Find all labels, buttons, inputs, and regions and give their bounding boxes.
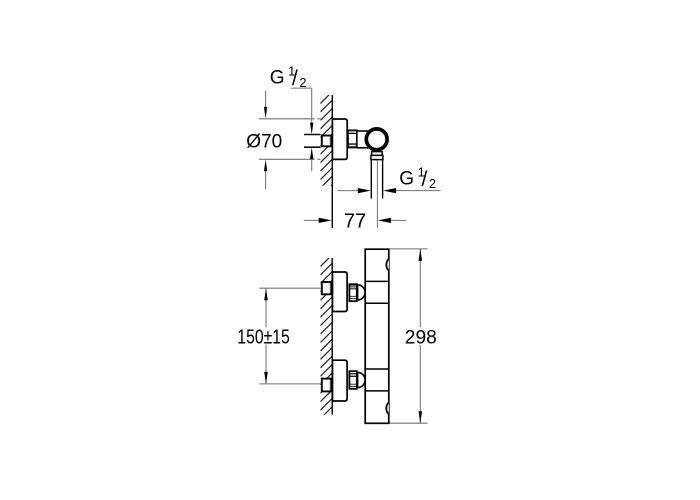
lower inlet boss silhouette lines	[365, 368, 389, 370]
upper union boss	[358, 285, 366, 300]
svg-text:G: G	[399, 169, 414, 190]
dimension ext lines: wall socket edges (G 1/2 thread)	[304, 135, 321, 148]
wall socket (concealed G 1/2 union)	[322, 136, 331, 147]
dimension: G 1/2 top leader (shelf + arrows at x=311.7)	[291, 88, 312, 171]
upper escutcheon	[333, 272, 348, 312]
wall hatching (side view)	[320, 255, 332, 428]
valve inlet horn	[357, 132, 371, 147]
hex nut (top view)	[348, 130, 357, 147]
lower wall socket	[322, 379, 331, 392]
mixer bar body	[365, 249, 389, 423]
lower union nut	[349, 371, 356, 389]
svg-text:77: 77	[344, 211, 366, 233]
dimension ext line: escutcheon bottom edge	[259, 158, 321, 160]
svg-text:/: /	[292, 67, 298, 90]
upper screw plug arc	[386, 259, 388, 271]
dimension ext line: bar top edge	[390, 248, 428, 250]
svg-text:2: 2	[300, 76, 307, 90]
upper union nut	[349, 284, 356, 301]
lower escutcheon	[333, 360, 348, 401]
upper inlet boss silhouette lines	[365, 280, 389, 282]
wall surface line (side view)	[331, 258, 333, 415]
dimension ext line: escutcheon top edge	[259, 118, 321, 120]
valve centerline (pipe axis, 77 extension)	[376, 160, 378, 228]
upper wall socket	[322, 282, 331, 294]
dimension: G 1/2 bottom leader (arrows at pipe)	[338, 190, 441, 192]
shower outlet neck	[372, 152, 383, 156]
svg-text:2: 2	[429, 177, 436, 191]
svg-text:150±15: 150±15	[237, 326, 289, 348]
svg-text:G: G	[270, 68, 285, 89]
svg-text:/: /	[422, 168, 428, 191]
svg-text:Ø70: Ø70	[246, 131, 282, 152]
dimension: Ø70 arrows at x=265.6	[265, 91, 267, 189]
outlet pipe (G 1/2 hose connection)	[371, 160, 382, 199]
lower screw plug arc	[386, 402, 388, 414]
shower outlet nut	[371, 155, 383, 159]
wall hatching (top view)	[320, 92, 332, 197]
lower union boss	[358, 373, 366, 388]
escutcheon Ø70 (top view)	[332, 119, 347, 159]
dimension ext line: bar bottom edge	[390, 422, 428, 424]
dimension ext line: lower socket centre	[260, 383, 321, 385]
valve body (thermostat head, top view)	[366, 129, 387, 150]
svg-text:298: 298	[405, 327, 437, 349]
dimension: 77	[304, 219, 406, 221]
wall surface line (top view), extends down as 77 extension line	[331, 95, 333, 228]
dimension ext line: upper socket centre	[260, 287, 321, 289]
dimension line: 298	[419, 249, 421, 423]
dimension line: 150±15	[265, 288, 267, 384]
